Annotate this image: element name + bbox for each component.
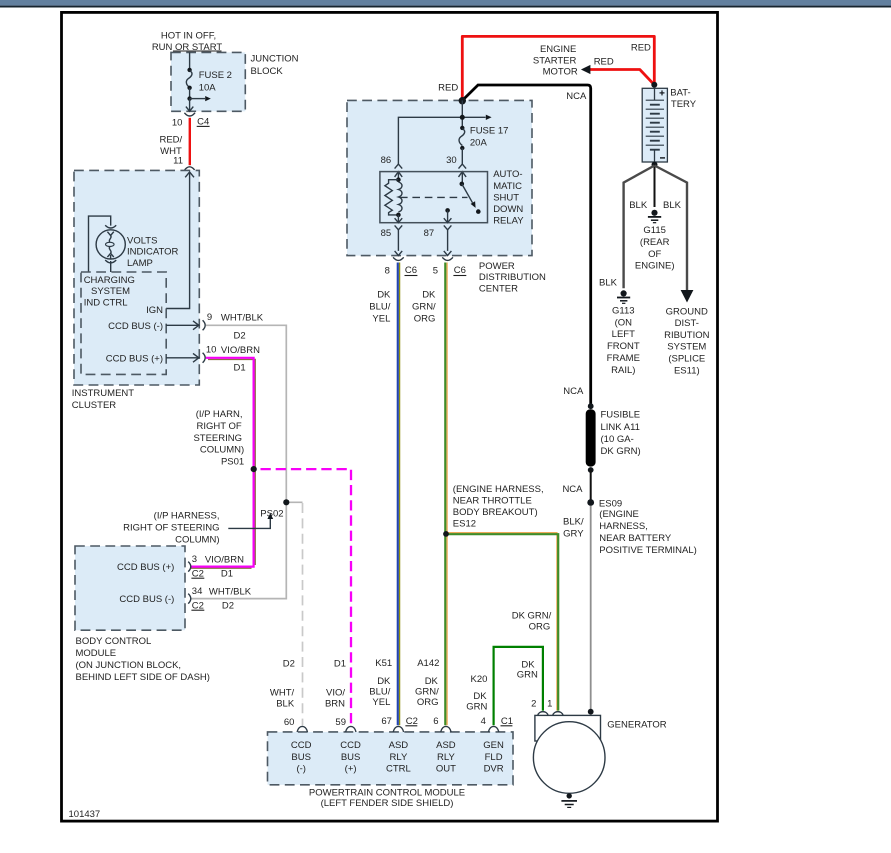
lamp filament	[106, 232, 115, 259]
connector arc pcm pin 59	[346, 726, 356, 731]
svg-text:IND CTRL: IND CTRL	[84, 297, 128, 308]
svg-text:RIGHT OF: RIGHT OF	[196, 421, 241, 432]
generator field rect	[535, 715, 601, 741]
svg-text:RIBUTION: RIBUTION	[664, 330, 710, 341]
wire hot feed into fuse 2	[189, 52, 191, 70]
arrow ccd bus minus	[166, 321, 199, 330]
relay switch	[445, 182, 480, 223]
svg-text:D1: D1	[234, 362, 246, 373]
svg-text:GRN/: GRN/	[415, 686, 439, 697]
pin ASD RLY CTRL label	[386, 740, 411, 775]
svg-text:HOT IN OFF,: HOT IN OFF,	[161, 30, 216, 41]
lamp socket arc bottom	[105, 260, 116, 263]
fuse F17 element	[459, 126, 465, 150]
svg-text:CHARGING: CHARGING	[84, 275, 135, 286]
svg-text:AUTO-: AUTO-	[493, 169, 522, 180]
wire battery negative to g115	[654, 165, 656, 207]
svg-text:ENGINE): ENGINE)	[635, 261, 675, 272]
svg-text:BLU/: BLU/	[369, 302, 390, 313]
svg-text:G113: G113	[612, 305, 635, 316]
wire WHT/BLK stub	[286, 501, 302, 503]
label POWERTRAIN CONTROL MODULE	[309, 788, 465, 810]
wire feed into pdc	[461, 100, 463, 128]
svg-text:(ON: (ON	[615, 317, 633, 328]
label BODY CONTROL MODULE	[76, 636, 210, 683]
node ENGINE STARTER MOTOR label	[533, 44, 578, 78]
svg-text:NCA: NCA	[566, 91, 587, 102]
svg-text:FRONT: FRONT	[607, 341, 640, 352]
wire K20 DK GRN generator to pcm	[494, 647, 543, 725]
svg-text:D2: D2	[283, 659, 295, 670]
splice PS01	[251, 466, 257, 472]
splice PS02	[283, 499, 289, 505]
svg-text:RED/: RED/	[159, 134, 182, 145]
pin ASD RLY OUT label	[436, 740, 456, 775]
wire VIO/BRN brown tracer	[191, 359, 255, 568]
svg-text:OUT: OUT	[436, 763, 456, 774]
svg-text:(ON JUNCTION BLOCK,: (ON JUNCTION BLOCK,	[76, 660, 182, 671]
svg-text:MODULE: MODULE	[76, 648, 117, 659]
svg-text:YEL: YEL	[372, 697, 390, 708]
ground generator symbol	[561, 793, 577, 807]
svg-text:BODY CONTROL: BODY CONTROL	[76, 636, 152, 647]
svg-text:(10 GA-: (10 GA-	[601, 434, 634, 445]
junction dot pdc bus	[460, 115, 465, 120]
svg-text:86: 86	[381, 155, 392, 166]
svg-text:CCD: CCD	[340, 740, 361, 751]
svg-text:SHUT: SHUT	[493, 192, 519, 203]
label I/P HARNESS RIGHT OF STEERING COLUMN	[123, 511, 219, 546]
wire RED to starter motor with arrow	[581, 65, 654, 85]
svg-text:WHT/BLK: WHT/BLK	[209, 586, 252, 597]
powertrain control module box	[268, 732, 514, 785]
svg-text:10A: 10A	[199, 82, 217, 93]
svg-text:PS01: PS01	[221, 456, 244, 467]
terminal chevron ign entry and wire IGN	[166, 172, 194, 309]
junction dot battery negative	[652, 162, 658, 168]
component BATTERY label	[670, 88, 696, 111]
svg-text:ENGINE: ENGINE	[540, 44, 576, 55]
svg-text:59: 59	[335, 717, 346, 728]
svg-text:YEL: YEL	[372, 313, 390, 324]
label INSTRUMENT CLUSTER	[72, 388, 134, 411]
svg-text:5: 5	[433, 266, 438, 277]
svg-text:ES09: ES09	[599, 498, 622, 509]
svg-text:BLOCK: BLOCK	[251, 66, 284, 77]
svg-text:VIO/BRN: VIO/BRN	[205, 554, 244, 565]
arrow pdc bus with branch	[398, 115, 491, 165]
terminal 85 chevrons	[395, 215, 403, 251]
svg-text:D1: D1	[334, 659, 346, 670]
wire DK BLU/YEL pdc to pcm	[398, 263, 400, 726]
svg-text:VOLTS: VOLTS	[127, 235, 157, 246]
svg-text:DK: DK	[377, 290, 391, 301]
svg-text:POWER: POWER	[479, 261, 515, 272]
svg-text:NCA: NCA	[562, 484, 583, 495]
svg-text:BAT-: BAT-	[670, 88, 690, 99]
svg-text:STEERING: STEERING	[193, 433, 242, 444]
pin GEN FLD DVR label	[483, 740, 504, 775]
wire BLK left arm	[624, 166, 655, 289]
svg-text:BEHIND LEFT SIDE OF DASH): BEHIND LEFT SIDE OF DASH)	[76, 672, 210, 683]
svg-text:NEAR BATTERY: NEAR BATTERY	[599, 533, 672, 544]
svg-text:DOWN: DOWN	[493, 204, 523, 215]
svg-text:67: 67	[381, 716, 392, 727]
svg-text:LAMP: LAMP	[127, 258, 153, 269]
svg-text:85: 85	[381, 228, 392, 239]
connector arc bcm pin 34	[188, 594, 191, 604]
svg-text:GEN: GEN	[483, 740, 504, 751]
svg-text:K20: K20	[470, 674, 487, 685]
svg-text:(SPLICE: (SPLICE	[668, 354, 705, 365]
svg-text:WHT/BLK: WHT/BLK	[221, 312, 264, 323]
svg-text:VIO/: VIO/	[326, 688, 345, 699]
terminal chevron junction block exit	[186, 107, 193, 112]
svg-text:30: 30	[446, 155, 457, 166]
relay U1 asd box	[380, 172, 488, 223]
lamp socket arc top	[105, 225, 116, 228]
svg-text:101437: 101437	[69, 809, 101, 820]
generator body circle	[533, 722, 605, 794]
terminal 87 chevrons	[444, 218, 452, 251]
junction dot fusible link bottom	[588, 467, 594, 473]
junction dot hot feed	[459, 97, 466, 104]
svg-text:VIO/BRN: VIO/BRN	[221, 345, 260, 356]
svg-text:IGN: IGN	[146, 305, 163, 316]
svg-text:CENTER: CENTER	[479, 284, 518, 295]
svg-text:K51: K51	[375, 658, 392, 669]
svg-text:G115: G115	[643, 225, 666, 236]
label DK GRN/ORG upper	[412, 290, 436, 325]
junction dot fuse 2 top	[187, 68, 191, 72]
charging system ind ctrl box	[81, 272, 166, 374]
connector arc bcm pin 3	[188, 562, 191, 572]
svg-text:10: 10	[172, 118, 183, 129]
terminal chevron pdc exit 5	[444, 251, 452, 256]
label G115 REAR OF ENGINE	[635, 225, 675, 272]
terminal 86 chevrons	[395, 164, 403, 180]
label DK BLU/YEL column 67	[369, 676, 391, 708]
svg-text:2: 2	[531, 699, 536, 710]
svg-text:NEAR THROTTLE: NEAR THROTTLE	[453, 495, 532, 506]
svg-text:FUSIBLE: FUSIBLE	[601, 410, 641, 421]
svg-text:87: 87	[424, 228, 435, 239]
svg-text:FUSE 17: FUSE 17	[470, 125, 509, 136]
label JUNCTION BLOCK	[251, 54, 299, 77]
svg-text:9: 9	[207, 312, 212, 323]
svg-text:34: 34	[192, 586, 203, 597]
fuse F2 element	[186, 71, 192, 88]
svg-text:DIST-: DIST-	[675, 318, 699, 329]
connector arc C4	[184, 113, 195, 116]
svg-text:ORG: ORG	[529, 621, 551, 632]
junction dot blk/gry at generator	[588, 709, 594, 715]
connector arc cluster entry	[185, 167, 195, 170]
svg-text:MOTOR: MOTOR	[543, 67, 578, 78]
svg-text:ES12: ES12	[453, 518, 476, 529]
svg-text:ASD: ASD	[389, 740, 409, 751]
connector arc pcm pin 4	[488, 726, 498, 731]
svg-text:CCD BUS (-): CCD BUS (-)	[108, 321, 163, 332]
wire lamp feed	[89, 216, 111, 272]
svg-text:BODY BREAKOUT): BODY BREAKOUT)	[453, 507, 538, 518]
svg-text:RED: RED	[631, 42, 651, 53]
svg-text:6: 6	[433, 716, 438, 727]
terminal chevron pdc exit 8	[395, 251, 403, 256]
label DK GRN/ORG lower	[512, 611, 552, 633]
svg-text:11: 11	[173, 155, 183, 166]
svg-text:10: 10	[206, 345, 217, 356]
svg-text:8: 8	[385, 266, 390, 277]
svg-text:(+): (+)	[345, 763, 357, 774]
svg-text:BLU/: BLU/	[369, 686, 390, 697]
label DK GRN column 4	[466, 691, 487, 712]
svg-text:INSTRUMENT: INSTRUMENT	[72, 388, 134, 399]
svg-text:CCD BUS (+): CCD BUS (+)	[117, 562, 174, 573]
instrument cluster box	[74, 170, 199, 385]
wire DK GRN/ORG branch to generator	[446, 533, 558, 711]
connector arc generator pin 1	[553, 712, 563, 716]
svg-text:TERY: TERY	[671, 99, 697, 110]
label CHARGING SYSTEM IND CTRL	[84, 275, 135, 308]
label DK BLU/YEL upper	[369, 290, 391, 325]
wire lamp to charging ctrl	[110, 261, 112, 272]
wire NCA to battery side	[462, 85, 590, 406]
connector C6 label right	[453, 265, 466, 276]
svg-text:RAIL): RAIL)	[611, 365, 635, 376]
svg-text:GENERATOR: GENERATOR	[607, 719, 666, 730]
svg-text:(REAR: (REAR	[640, 237, 670, 248]
svg-text:20A: 20A	[470, 138, 488, 149]
node HOT IN OFF RUN OR START	[152, 30, 223, 53]
svg-text:RELAY: RELAY	[493, 216, 524, 227]
svg-text:FLD: FLD	[485, 752, 503, 763]
svg-text:GRN: GRN	[466, 701, 487, 712]
svg-text:BLK: BLK	[276, 699, 295, 710]
svg-text:DK GRN): DK GRN)	[601, 446, 641, 457]
svg-text:GRN: GRN	[517, 670, 538, 681]
connector C2 label pcm	[405, 716, 418, 727]
svg-text:STARTER: STARTER	[533, 56, 577, 67]
svg-text:MATIC: MATIC	[493, 181, 522, 192]
svg-text:DVR: DVR	[484, 763, 504, 774]
svg-text:A142: A142	[417, 658, 439, 669]
svg-text:(LEFT FENDER SIDE SHIELD): (LEFT FENDER SIDE SHIELD)	[321, 798, 454, 809]
svg-text:CCD BUS (-): CCD BUS (-)	[119, 594, 174, 605]
battery plus terminal mark	[660, 90, 665, 95]
label VOLTS INDICATOR LAMP	[127, 235, 179, 269]
svg-text:BUS: BUS	[291, 752, 311, 763]
svg-text:OF: OF	[648, 249, 661, 260]
svg-text:DISTRIBUTION: DISTRIBUTION	[479, 272, 546, 283]
wire fuse 17 to relay 30	[461, 148, 463, 164]
terminal 30 chevrons	[459, 164, 467, 184]
svg-text:BLK: BLK	[663, 200, 682, 211]
battery cell plates	[646, 88, 664, 162]
wire fuse to tap	[189, 88, 191, 99]
label VIO/BRN column 59	[325, 688, 345, 710]
connector arc C6 pin 5	[442, 257, 453, 260]
wire fuse output down	[189, 99, 191, 111]
splice ES09	[587, 499, 594, 506]
svg-text:CTRL: CTRL	[386, 763, 411, 774]
label DK GRN generator	[517, 659, 538, 680]
label I/P HARN RIGHT OF STEERING COLUMN PS01	[193, 409, 244, 468]
connector arc pin 9	[203, 320, 206, 330]
svg-text:NCA: NCA	[563, 386, 584, 397]
splice ES12	[443, 531, 449, 537]
connector arc generator pin 2	[538, 712, 548, 716]
label AUTOMATIC SHUT DOWN RELAY	[493, 169, 524, 226]
svg-text:POSITIVE TERMINAL): POSITIVE TERMINAL)	[599, 545, 696, 556]
svg-text:SYSTEM: SYSTEM	[91, 286, 130, 297]
svg-text:C6: C6	[405, 265, 417, 276]
svg-text:(I/P HARNESS,: (I/P HARNESS,	[154, 511, 220, 522]
svg-text:ES11): ES11)	[674, 365, 700, 376]
svg-text:BUS: BUS	[341, 752, 361, 763]
svg-text:COLUMN): COLUMN)	[200, 445, 244, 456]
svg-text:CCD BUS (+): CCD BUS (+)	[106, 354, 163, 365]
svg-text:RLY: RLY	[437, 752, 455, 763]
relay actuator dashed link	[400, 196, 468, 198]
svg-text:FUSE 2: FUSE 2	[199, 70, 232, 81]
wire VIO/BRN cluster to bcm	[190, 358, 254, 567]
svg-text:POWERTRAIN CONTROL MODULE: POWERTRAIN CONTROL MODULE	[309, 788, 465, 799]
svg-text:FRAME: FRAME	[607, 353, 640, 364]
wire VIO/BRN dashed to pcm	[261, 469, 352, 725]
svg-text:D2: D2	[222, 600, 234, 611]
connector C1 label pcm	[501, 716, 514, 727]
svg-text:RLY: RLY	[390, 752, 408, 763]
svg-text:DK: DK	[473, 691, 487, 702]
arrow ground distribution	[681, 290, 694, 303]
wire BLK right arm	[655, 166, 688, 291]
battery minus terminal mark	[660, 157, 665, 159]
svg-text:INDICATOR: INDICATOR	[127, 247, 179, 258]
svg-text:3: 3	[192, 554, 197, 565]
svg-text:LINK A11: LINK A11	[601, 422, 640, 433]
label G113 ON LEFT FRONT FRAME RAIL	[607, 305, 640, 376]
svg-text:WHT/: WHT/	[270, 688, 295, 699]
connector arc C6 pin 8	[393, 257, 404, 260]
svg-text:CLUSTER: CLUSTER	[72, 400, 116, 411]
power distribution center box	[347, 100, 532, 255]
pin CCD BUS (-) pcm label	[291, 740, 312, 775]
junction block box	[171, 52, 245, 111]
label FUSE 2 10A	[199, 70, 232, 93]
connector C2 label row2	[191, 600, 204, 611]
wire DK GRN/ORG pdc to pcm	[445, 263, 447, 726]
svg-text:(ENGINE HARNESS,: (ENGINE HARNESS,	[453, 484, 544, 495]
svg-text:(ENGINE: (ENGINE	[599, 509, 639, 520]
svg-text:ASD: ASD	[436, 740, 456, 751]
svg-text:GRN/: GRN/	[412, 302, 436, 313]
junction dot tap	[187, 96, 191, 100]
svg-text:SYSTEM: SYSTEM	[667, 342, 706, 353]
fusible link A11	[586, 409, 596, 466]
ground G113 symbol	[617, 290, 630, 303]
svg-text:(-): (-)	[296, 763, 306, 774]
svg-text:(I/P HARN,: (I/P HARN,	[196, 409, 243, 420]
svg-text:BLK: BLK	[629, 200, 648, 211]
arrow feed continues right	[190, 96, 211, 101]
svg-text:RED: RED	[594, 57, 614, 68]
connector C2 label row1	[191, 568, 204, 579]
svg-text:DK: DK	[422, 290, 436, 301]
label FUSIBLE LINK A11 10 GA DK GRN	[601, 410, 641, 458]
connector arc pcm pin 67	[393, 726, 403, 731]
label GROUND DISTRIBUTION SYSTEM SPLICE ES11	[664, 306, 710, 376]
connector C6 label left	[405, 265, 418, 276]
svg-text:D2: D2	[234, 331, 246, 342]
pin CCD BUS (+) pcm label	[340, 740, 361, 775]
wire RED/WHT	[189, 118, 191, 165]
svg-text:RIGHT OF STEERING: RIGHT OF STEERING	[123, 523, 219, 534]
svg-text:COLUMN): COLUMN)	[175, 534, 219, 545]
svg-text:JUNCTION: JUNCTION	[251, 54, 299, 65]
body control module box	[75, 546, 185, 630]
svg-text:CCD: CCD	[291, 740, 312, 751]
wire BLK/GRY to generator	[590, 506, 592, 710]
wire fusible link to es09	[590, 470, 592, 500]
battery box	[642, 88, 667, 162]
label WHT/BLK column 60	[270, 688, 295, 710]
junction dot battery positive	[651, 82, 657, 88]
junction dot fuse 2 bottom	[187, 86, 191, 90]
svg-text:BRN: BRN	[325, 699, 345, 710]
svg-text:HARNESS,: HARNESS,	[599, 521, 648, 532]
label RED/WHT	[159, 134, 182, 157]
svg-text:C6: C6	[454, 265, 466, 276]
volts indicator lamp bulb	[96, 230, 125, 259]
svg-text:BLK/: BLK/	[563, 516, 584, 527]
label FUSE 17 20A	[470, 125, 509, 148]
svg-text:D1: D1	[221, 568, 233, 579]
wire WHT/BLK dashed to pcm	[302, 503, 304, 726]
label ENGINE HARNESS NEAR THROTTLE BODY BREAKOUT ES12	[453, 484, 544, 530]
svg-text:4: 4	[481, 716, 486, 727]
label ES09 ENGINE HARNESS NEAR BATTERY POSITIVE TERMINAL	[599, 498, 697, 556]
arrow ccd bus plus	[166, 353, 199, 362]
connector arc pcm pin 60	[297, 726, 307, 731]
label DK GRN/ORG column 6	[415, 676, 439, 708]
ground G115 symbol	[648, 210, 661, 223]
svg-text:GROUND: GROUND	[666, 306, 708, 317]
svg-text:LEFT: LEFT	[612, 329, 635, 340]
svg-text:DK GRN/: DK GRN/	[512, 611, 552, 622]
connector arc pin 10	[203, 353, 206, 363]
label BLK/GRY	[563, 516, 584, 539]
svg-text:DK: DK	[521, 659, 535, 670]
label POWER DISTRIBUTION CENTER	[479, 261, 546, 295]
svg-text:GRY: GRY	[563, 528, 584, 539]
relay coil	[385, 177, 402, 217]
svg-text:ORG: ORG	[414, 313, 436, 324]
connector arc pcm pin 6	[441, 726, 451, 731]
svg-text:BLK: BLK	[599, 278, 618, 289]
wire RED battery feed	[462, 36, 654, 100]
svg-text:RED: RED	[438, 83, 458, 94]
wire WHT/BLK cluster to bcm	[190, 325, 286, 598]
arrow pointer to PS02	[228, 513, 273, 528]
svg-text:60: 60	[284, 717, 295, 728]
svg-text:1: 1	[547, 699, 552, 710]
connector C4 label	[197, 117, 210, 128]
svg-text:ORG: ORG	[417, 697, 439, 708]
junction dot fusible link top	[588, 403, 594, 409]
